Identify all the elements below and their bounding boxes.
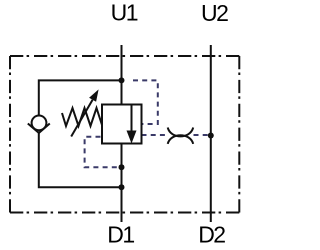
svg-text:D2: D2 <box>198 222 225 248</box>
svg-text:U2: U2 <box>201 0 228 26</box>
svg-text:D1: D1 <box>107 222 134 248</box>
svg-text:U1: U1 <box>111 0 138 26</box>
